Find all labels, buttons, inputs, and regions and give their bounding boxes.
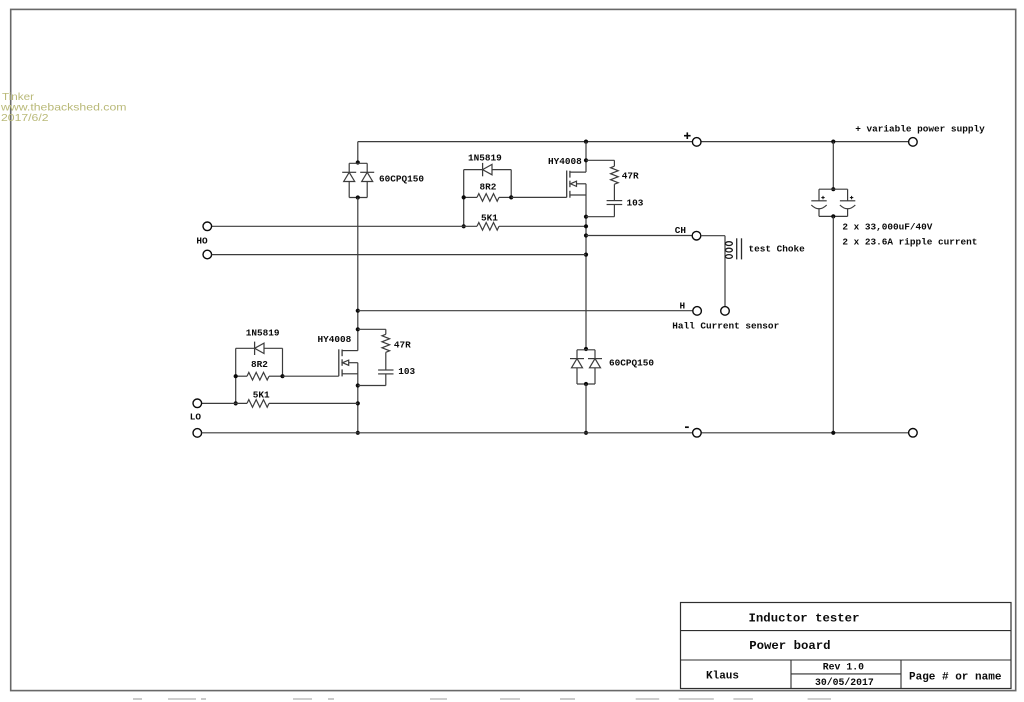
- node 60CPQ150 lower top: [584, 347, 588, 351]
- node 8R2 right / gate (lower): [280, 374, 284, 378]
- wire HO2: [212, 254, 586, 256]
- svg-text:Rev 1.0: Rev 1.0: [823, 661, 864, 672]
- svg-text:47R: 47R: [394, 340, 411, 351]
- svg-text:8R2: 8R2: [251, 359, 268, 370]
- wire H: [358, 310, 693, 312]
- svg-text:8R2: 8R2: [480, 182, 497, 193]
- node snubber return (upper): [584, 215, 588, 219]
- svg-text:47R: 47R: [622, 171, 639, 182]
- terminal LO1: [193, 399, 202, 408]
- inductor test Choke: [725, 236, 742, 307]
- diode 1N5819 (upper): [464, 163, 512, 176]
- node line B / bottom rail: [584, 431, 588, 435]
- svg-text:Klaus: Klaus: [706, 671, 739, 683]
- terminal H: [693, 307, 702, 316]
- terminal LO2: [193, 429, 202, 438]
- resistor 8R2 (upper): [464, 196, 477, 198]
- node line A / H wire: [356, 309, 360, 313]
- svg-text:+ variable power supply: + variable power supply: [855, 123, 985, 134]
- wire line A upper: [357, 142, 359, 164]
- node 5K1 tap (upper): [462, 224, 466, 228]
- svg-text:HY4008: HY4008: [548, 156, 582, 167]
- node 47R tap (upper): [584, 158, 588, 162]
- resistor 47R (lower): [358, 328, 386, 330]
- dual schottky diode 60CPQ150 (upper): [342, 160, 374, 199]
- wire gate (upper): [511, 196, 567, 198]
- node capacitor top: [831, 187, 835, 191]
- svg-text:HY4008: HY4008: [318, 334, 352, 345]
- resistor 5K1 (lower): [247, 400, 269, 408]
- node 8R2 left (lower): [234, 374, 238, 378]
- svg-text:1N5819: 1N5819: [246, 328, 280, 339]
- svg-text:60CPQ150: 60CPQ150: [609, 357, 654, 368]
- node line A / 5K1 wire: [356, 401, 360, 405]
- diode 1N5819 (lower): [236, 342, 283, 355]
- terminal HO2: [203, 250, 212, 259]
- capacitor 103 (upper): [607, 200, 623, 202]
- wire HO1 left segment: [212, 225, 477, 227]
- resistor 8R2 (lower): [236, 375, 247, 377]
- resistor 5K1 (upper): [477, 223, 499, 231]
- wire box right vertical (upper): [510, 170, 512, 198]
- svg-text:Power board: Power board: [749, 639, 830, 653]
- svg-text:H: H: [680, 300, 686, 311]
- svg-text:2 x 23.6A ripple current: 2 x 23.6A ripple current: [842, 236, 977, 247]
- capacitor 103 (lower): [378, 369, 393, 371]
- node capacitor bottom: [831, 214, 835, 218]
- label -: [685, 426, 689, 428]
- svg-text:2017/6/2: 2017/6/2: [1, 112, 49, 124]
- node top rail / line B: [584, 140, 588, 144]
- title block: [681, 603, 1012, 689]
- node HO2 end: [584, 253, 588, 257]
- terminal CH: [692, 231, 701, 240]
- wire line B source segment: [585, 184, 587, 350]
- svg-text:5K1: 5K1: [253, 390, 270, 401]
- wire LO1 right segment: [269, 402, 358, 404]
- wire capacitor bank down: [832, 216, 834, 432]
- wire gate (lower): [283, 375, 339, 377]
- wire top positive rail: [358, 141, 693, 143]
- wire box right vertical (lower): [282, 348, 284, 376]
- svg-text:103: 103: [627, 198, 644, 209]
- svg-text:LO: LO: [190, 412, 202, 423]
- wire bottom negative rail: [202, 432, 693, 434]
- svg-text:1N5819: 1N5819: [468, 152, 502, 163]
- svg-text:Page # or name: Page # or name: [909, 672, 1002, 684]
- wire box left vertical (upper): [463, 170, 465, 227]
- wire line B to bottom rail: [585, 384, 587, 433]
- node 5K1 tap (lower): [234, 401, 238, 405]
- wire CH: [586, 235, 692, 237]
- svg-text:CH: CH: [675, 225, 686, 236]
- svg-text:Inductor tester: Inductor tester: [749, 611, 860, 625]
- wire capacitor bank top: [832, 142, 834, 190]
- terminal + (positive supply): [692, 138, 701, 147]
- node 8R2 right / gate (upper): [509, 195, 513, 199]
- node 8R2 left (upper): [462, 195, 466, 199]
- node line A / snubber return: [356, 383, 360, 387]
- node CH tap: [584, 233, 588, 237]
- svg-text:60CPQ150: 60CPQ150: [379, 173, 424, 184]
- node bottom rail / capacitor: [831, 431, 835, 435]
- svg-text:test Choke: test Choke: [749, 243, 806, 254]
- wire line A lower (source side): [357, 363, 359, 433]
- wire LO1 left segment: [202, 402, 247, 404]
- svg-text:2 x 33,000uF/40V: 2 x 33,000uF/40V: [842, 221, 932, 232]
- svg-text:HO: HO: [196, 235, 208, 246]
- bottom cut-off tick row: [133, 698, 831, 700]
- mosfet HY4008 (upper): [567, 171, 586, 198]
- svg-text:Hall Current sensor: Hall Current sensor: [672, 320, 779, 331]
- terminal choke bottom: [721, 307, 730, 316]
- terminal negative supply (right): [909, 429, 918, 438]
- terminal + variable power supply (right): [909, 138, 918, 147]
- resistor 47R (upper): [586, 159, 614, 161]
- svg-text:5K1: 5K1: [481, 212, 498, 223]
- wire CH to choke: [701, 235, 725, 237]
- node HO1 end: [584, 224, 588, 228]
- svg-text:103: 103: [398, 366, 415, 377]
- node top rail / capacitor tap: [831, 140, 835, 144]
- terminal - (negative supply): [693, 429, 702, 438]
- svg-text:30/05/2017: 30/05/2017: [815, 677, 874, 688]
- wire HO1 right segment: [499, 225, 586, 227]
- wire line B drain segment: [585, 142, 587, 173]
- dual schottky diode 60CPQ150 (lower): [570, 350, 602, 386]
- capacitor bank 2x33000uF: [811, 189, 855, 216]
- wire line A middle (through HO crossings): [357, 198, 359, 351]
- label +: [684, 135, 691, 137]
- node line A / bottom rail: [356, 431, 360, 435]
- mosfet HY4008 (lower): [339, 349, 358, 376]
- wire box left vertical (lower): [235, 348, 237, 403]
- terminal HO1: [203, 222, 212, 231]
- node line A / 47R tap (lower cluster): [356, 327, 360, 331]
